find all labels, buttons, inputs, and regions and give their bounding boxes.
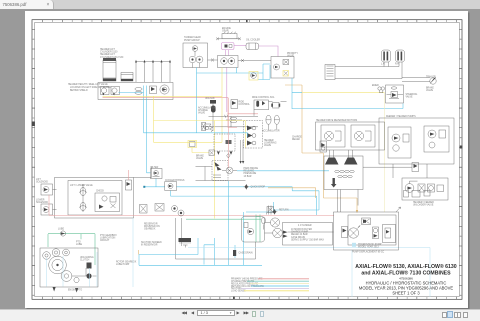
wire: black links under unload valve <box>201 115 258 127</box>
wire: line to rear steer port <box>402 78 430 82</box>
main pump cluster MP1 <box>270 218 287 238</box>
svg-text:TRAILER: TRAILER <box>426 76 436 79</box>
gauge port circles GP1 <box>172 206 185 217</box>
wire: orange branch to pump servo <box>268 188 316 198</box>
wire: orange lube stub <box>138 250 140 255</box>
wire: cyan return inside manifold A <box>119 92 144 94</box>
fan drive motor block FD1 <box>179 238 192 248</box>
wire: pale blue risers bottom centre <box>133 218 430 297</box>
pto valve PTV <box>412 163 419 172</box>
svg-text:MODEL YEAR 2013: MODEL YEAR 2013 <box>358 246 379 249</box>
wire: pale blue mid drain rail <box>188 247 430 249</box>
hydro assembly inner box <box>348 215 396 245</box>
svg-text:CASE DRAIN: CASE DRAIN <box>291 236 305 239</box>
gear G6 <box>74 277 79 282</box>
junction dot on return rail <box>143 186 145 188</box>
steering cylinder SC2 <box>395 50 405 66</box>
main lift valve outer box <box>55 178 134 219</box>
steering cylinder SC1 <box>381 50 391 66</box>
regulated pressure valve V4 on orange line <box>320 141 327 152</box>
svg-text:PUMP DISPLACEMENT 89 CC: PUMP DISPLACEMENT 89 CC <box>352 251 385 254</box>
steering priority valve block SV1 <box>386 85 418 103</box>
reverser motor RM1 <box>321 125 345 147</box>
svg-text:L.H.: L.H. <box>381 64 386 66</box>
solenoid valve SV2 <box>252 97 275 116</box>
gear G3 (main) <box>49 256 67 274</box>
park brake dashed box <box>214 134 235 155</box>
pilot check assembly in manifold A <box>160 85 169 94</box>
solenoid in yellow box SB1 <box>188 141 197 148</box>
svg-text:RELIEF 24 BAR: RELIEF 24 BAR <box>291 233 308 236</box>
svg-text:RIDE CONTROL SOL: RIDE CONTROL SOL <box>252 97 275 99</box>
return filter RF1 <box>140 205 148 214</box>
bottom border zone tick marks <box>42 297 459 299</box>
svg-text:ROTOR GEARBOX: ROTOR GEARBOX <box>116 261 137 264</box>
label: hydro assembly text rows <box>352 243 385 254</box>
feeder pump FP1 <box>388 127 411 158</box>
top centre fold mark <box>246 20 248 23</box>
solenoid valve V1 in manifold A <box>101 87 110 96</box>
svg-text:PTO GEARBOX: PTO GEARBOX <box>100 234 117 237</box>
coupling between pump blocks <box>208 59 218 62</box>
filter F1 in yellow box <box>249 72 258 81</box>
svg-text:OIL COOLER: OIL COOLER <box>246 40 260 42</box>
wire: orange regulated pressure from priority valve <box>285 85 357 211</box>
svg-text:RETURN: RETURN <box>279 210 289 212</box>
cylinder C1 <box>103 58 116 81</box>
sheet inner border frame <box>35 22 459 296</box>
svg-text:BEHIND SHIELD: BEHIND SHIELD <box>70 90 88 92</box>
left centre fold mark <box>32 122 35 127</box>
wire: cyan case line under priority valve <box>292 78 403 109</box>
svg-text:R.H.: R.H. <box>395 64 400 66</box>
pto gearbox block <box>40 248 98 287</box>
hydro pump HP1 <box>348 226 360 239</box>
gear G5 <box>61 271 72 282</box>
wire: cyan drain drops to return header <box>139 181 262 266</box>
wire: red charge drop to pump <box>227 98 229 168</box>
svg-text:SERVO SUPPLY 310 BAR MAX: SERVO SUPPLY 310 BAR MAX <box>291 238 324 241</box>
inline check diamond on red drop <box>227 154 230 158</box>
bottom centre fold mark <box>233 297 235 300</box>
drain orifice D1 <box>233 250 253 256</box>
wire: steering lines to cylinders <box>335 62 402 79</box>
wire: green drive shafts through tank <box>256 215 260 243</box>
left border zone digits <box>32 39 34 296</box>
lowering valve box (dashed) <box>244 121 263 149</box>
svg-text:PUMP GROUP: PUMP GROUP <box>184 40 200 42</box>
header drive outer box A <box>316 122 385 150</box>
wire: yellow suction riser from charge pump <box>221 68 223 143</box>
svg-text:HEADER / FEEDER: HEADER / FEEDER <box>413 201 434 204</box>
arrowheads under drops <box>239 161 244 164</box>
reservoir tank box <box>242 217 265 243</box>
wire: motor drop lines to clutch fans <box>330 150 353 158</box>
svg-text:PARK BRAKE: PARK BRAKE <box>244 167 259 170</box>
charge pump block P2 <box>218 56 239 68</box>
svg-text:VALVE: VALVE <box>264 144 272 147</box>
pressure reducing block PR1 <box>269 102 287 109</box>
svg-text:HEADER HEIGHT / REEL LIFT VALV: HEADER HEIGHT / REEL LIFT VALVE <box>68 83 108 86</box>
wire: pale-yellow long drop right side <box>384 93 386 212</box>
inline filter F2 <box>202 123 206 131</box>
svg-text:LUBE PUMP: LUBE PUMP <box>116 264 130 266</box>
svg-text:VALVE: VALVE <box>406 96 414 99</box>
svg-text:CHECK: CHECK <box>96 191 105 193</box>
suction screen SS1 <box>155 204 164 212</box>
junction cross J1 on cyan rail <box>244 184 266 190</box>
wire: cyan return loop top <box>197 64 271 133</box>
svg-text:HYDROSTATIC PUMP: HYDROSTATIC PUMP <box>358 243 382 246</box>
wire: yellow net centre <box>154 96 246 218</box>
swash control SC5 <box>362 218 371 225</box>
spec label box <box>283 223 333 246</box>
top border zone tick marks <box>42 20 459 22</box>
accumulator ACC2 <box>274 115 279 129</box>
small valve on yellow line <box>209 150 214 156</box>
svg-text:IN RESERVOIR: IN RESERVOIR <box>141 245 158 247</box>
top border zone digits <box>52 20 459 22</box>
sheet outer border frame <box>32 20 462 300</box>
svg-text:HEADER DRIVE REVERSER MOTORS: HEADER DRIVE REVERSER MOTORS <box>316 119 358 122</box>
svg-text:BRAKE: BRAKE <box>196 155 204 158</box>
svg-text:RELIEF: RELIEF <box>292 139 301 141</box>
solenoid valve V2 in manifold A <box>111 87 120 96</box>
wire: black drops from park brake box <box>241 140 244 161</box>
reservoir return valve RRV2 <box>165 179 185 191</box>
svg-text:SHEET 1 OF 3: SHEET 1 OF 3 <box>392 291 420 296</box>
wire: shaft line to hydro pump <box>238 59 271 62</box>
gear pump block P1 <box>183 43 208 68</box>
junction arrows on port lines <box>135 60 171 63</box>
lube valve LV1 on green line <box>58 229 66 237</box>
servo valve SV5 <box>342 227 348 238</box>
priority valve block P3 <box>271 57 294 79</box>
svg-text:HEADER LIFT: HEADER LIFT <box>100 53 116 56</box>
svg-text:HEADER LIFT: HEADER LIFT <box>100 48 116 51</box>
legend bar: suction <box>241 287 309 289</box>
svg-text:CONTROL: CONTROL <box>239 104 251 106</box>
relief valve V3 in manifold A <box>150 86 157 94</box>
feeder pump FP2 <box>424 126 449 152</box>
wire: yellow steering supply <box>302 92 385 94</box>
svg-text:GEAR: GEAR <box>222 30 229 33</box>
legend bar: charge pressure <box>247 280 309 282</box>
svg-text:VALVE: VALVE <box>426 89 434 92</box>
svg-text:CASE DRAIN: CASE DRAIN <box>239 252 253 255</box>
tank strainer <box>244 223 254 235</box>
svg-text:HEADER: HEADER <box>264 139 274 142</box>
wire: port lines into manifold A <box>136 62 170 83</box>
wire: pump drive couplings <box>265 223 334 234</box>
wire: magenta charge drop to pump inlet <box>226 50 229 112</box>
svg-text:VALVE: VALVE <box>198 112 206 115</box>
wire: gearbox to pto valve <box>338 167 413 212</box>
legend bar: regulated pressure <box>250 283 309 285</box>
legend bar: return low pressure <box>251 285 309 287</box>
legend bar: primary pressure <box>258 278 309 280</box>
wire: cyan line to pump gearbox <box>237 170 329 172</box>
clutch fan CF1 <box>325 158 339 165</box>
svg-text:AXIAL-FLOW® 5130, AXIAL-FLOW®: AXIAL-FLOW® 5130, AXIAL-FLOW® 6130 <box>355 263 457 270</box>
unloader block UB1 <box>402 178 448 200</box>
orifice pair O2 <box>226 117 242 123</box>
left border zone tick marks <box>32 29 34 296</box>
wire: magenta charge line to cooler <box>234 45 246 47</box>
svg-text:VALVE: VALVE <box>287 55 295 58</box>
spring check SC3 <box>205 124 212 132</box>
relief valve RV2 <box>231 100 250 109</box>
pressure switch PS1 on steering supply <box>372 85 384 93</box>
svg-text:UNLOAD: UNLOAD <box>205 97 215 100</box>
inner relief sub-box <box>95 191 120 212</box>
manifold A block <box>98 83 173 100</box>
junction cross J2 on cyan drop <box>272 209 289 215</box>
unload solenoid valve AV1 <box>205 97 216 131</box>
wire: red loop to accumulators <box>228 98 259 128</box>
wire: red pressure line exiting manifold A <box>103 97 229 99</box>
fan drive motor M1 (magenta outline) <box>222 43 235 50</box>
wire: cyan return to lowering valve <box>144 133 248 137</box>
brake valve dashed box <box>212 161 228 181</box>
oil cooler HX1 <box>246 43 259 50</box>
engine gear block E1 <box>222 32 237 39</box>
svg-text:VALVE: VALVE <box>196 157 204 160</box>
wire: cyan long return rails <box>144 179 319 216</box>
svg-text:LOAD SENSE: LOAD SENSE <box>231 290 246 293</box>
end valve EV1 on box edge <box>126 180 132 190</box>
wire: red supply into lift box <box>49 170 334 215</box>
hydro assembly outer box <box>334 212 399 250</box>
wire: black link lines under brake valve <box>196 167 246 181</box>
svg-text:LUBE: LUBE <box>76 244 82 246</box>
pilot valve PV2 <box>41 204 57 215</box>
pilot valve PV1 <box>41 184 57 195</box>
svg-text:UNLOADER VALVE: UNLOADER VALVE <box>413 204 434 207</box>
wire: yellow into small valve <box>192 148 209 153</box>
main lift valve inner box <box>68 181 122 216</box>
svg-text:RELEASE: RELEASE <box>244 170 255 173</box>
steering hand unit SU1 <box>325 65 335 80</box>
sub box with valve SB5 <box>383 225 396 243</box>
svg-text:TANDEM GEAR: TANDEM GEAR <box>184 36 201 39</box>
gear G4 <box>63 249 70 256</box>
gearbox block GB1 <box>324 156 363 190</box>
rear accumulator charge motor M2 <box>426 76 436 93</box>
svg-text:CLUTCH: CLUTCH <box>80 260 90 262</box>
svg-text:4 CYLINDER: 4 CYLINDER <box>298 225 312 227</box>
pump inlet valve PIV <box>267 206 274 215</box>
wire: yellow bottom bus in manifold A <box>103 95 223 97</box>
label: unload valve note <box>198 107 216 115</box>
right centre fold mark <box>460 146 463 149</box>
wire: cyan drop lines from manifold A <box>144 86 151 173</box>
bottom toolbar <box>0 309 480 321</box>
legend bar: load sense <box>244 290 309 292</box>
control valve CV5 <box>373 227 379 239</box>
charge pump CP2 <box>222 167 237 174</box>
svg-text:LUBRICATION: LUBRICATION <box>100 237 116 240</box>
svg-text:GEARBOX: GEARBOX <box>144 228 156 231</box>
flow divider Y1 <box>79 184 87 212</box>
svg-text:QUICK DROP: QUICK DROP <box>251 187 266 189</box>
arrow: case drain out of assembly <box>396 207 401 212</box>
svg-text:13 BAR: 13 BAR <box>244 175 252 178</box>
gear G1 <box>43 252 51 260</box>
feeder pumps outer box B <box>379 118 454 164</box>
charge inlet valve CIV <box>262 217 266 229</box>
gear G2 <box>52 249 60 257</box>
right border zone digits <box>460 39 462 296</box>
reverser motor RM2 <box>351 125 375 147</box>
clutch fan CF2 <box>344 158 358 165</box>
svg-text:SOLENOID: SOLENOID <box>36 182 48 184</box>
clutch pack CP1 <box>72 263 97 279</box>
wire: green supply rail <box>186 218 261 220</box>
wire: black tank lines centre <box>176 218 256 259</box>
orifice pair in manifold A <box>135 88 142 95</box>
svg-text:FEEDER / HEADER PUMPS: FEEDER / HEADER PUMPS <box>386 115 416 118</box>
svg-text:EMER: EMER <box>372 85 379 87</box>
svg-text:ACCUMULATOR: ACCUMULATOR <box>262 130 280 133</box>
svg-text:UNLOADING: UNLOADING <box>80 256 94 259</box>
wire: feeder pump drop <box>393 164 427 178</box>
wire: shaft arrows out of gearbox <box>53 287 79 293</box>
drive shaft with couplings <box>216 38 241 41</box>
right border zone tick marks <box>459 29 461 296</box>
svg-text:LIFT / LOWER VALVE: LIFT / LOWER VALVE <box>70 184 93 187</box>
wire: link line from box to centre <box>134 167 152 178</box>
svg-text:LUBE: LUBE <box>58 229 64 231</box>
cylinder C2 <box>121 73 133 82</box>
arrow: orange into hydro pump <box>356 210 358 213</box>
wire: pale blue drain drops from gearbox <box>47 252 98 287</box>
svg-text:and AXIAL-FLOW® 7130 COMBINES: and AXIAL-FLOW® 7130 COMBINES <box>361 270 451 277</box>
svg-text:ENGINE PTO: ENGINE PTO <box>68 290 82 292</box>
browser tab bar <box>0 0 480 10</box>
wire: magenta cooler outlet <box>259 46 279 57</box>
reservoir return valve RRV1 <box>151 167 163 179</box>
wire: green lube circuit <box>48 234 95 265</box>
svg-text:CIRCUIT: CIRCUIT <box>100 240 110 242</box>
accumulator ACC1 <box>266 115 271 129</box>
bottom border zone digits <box>52 297 459 299</box>
